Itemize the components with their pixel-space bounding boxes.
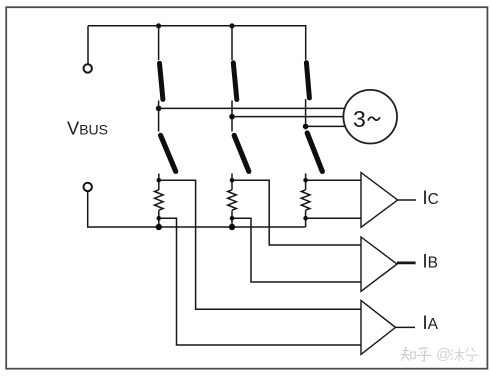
svg-text:VBUS: VBUS <box>67 118 108 139</box>
svg-text:3: 3 <box>353 106 366 132</box>
svg-text:@: @ <box>436 346 451 363</box>
svg-text:IC: IC <box>422 188 438 209</box>
svg-text:IA: IA <box>422 313 438 334</box>
svg-text:IB: IB <box>422 252 438 273</box>
